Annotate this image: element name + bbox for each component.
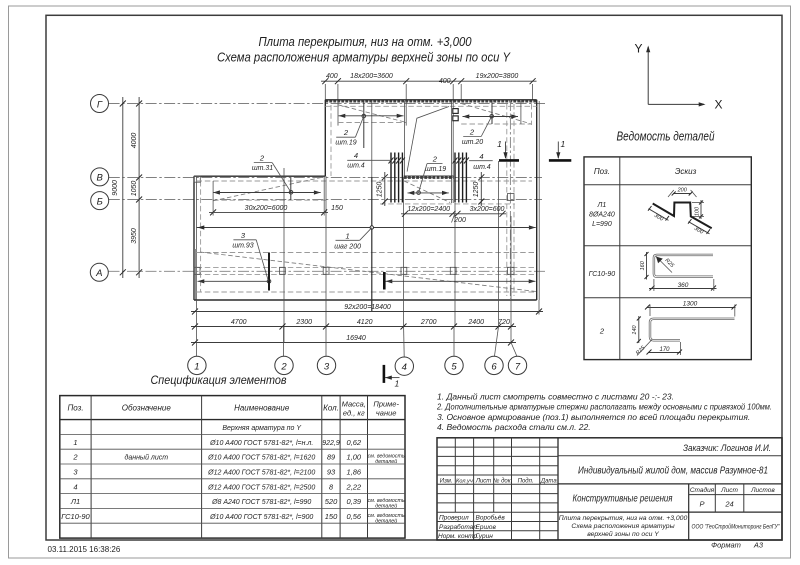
svg-text:Ø10 А400 ГОСТ 5781-82*, l=162: Ø10 А400 ГОСТ 5781-82*, l=1620 [207,455,315,462]
axis А line [109,270,546,272]
dim extension verticals to grid circles [197,300,540,357]
grid circle А [90,263,108,281]
svg-text:Схема расположения арматуры ве: Схема расположения арматуры верхней зоны… [217,50,511,65]
svg-text:Р: Р [699,500,704,509]
svg-text:деталей: деталей [375,517,397,524]
svg-text:шт.93: шт.93 [232,242,253,249]
30x200 zone diagonal [213,178,321,201]
svg-text:Наименование: Наименование [234,404,290,413]
svg-text:9000: 9000 [112,180,119,196]
title block Изм header row [440,477,558,484]
grid circle Г [91,95,109,113]
svg-text:Y: Y [634,42,642,56]
svg-text:4120: 4120 [357,319,373,326]
title block right part lines [558,456,782,540]
spec row Л1 [70,497,405,510]
svg-text:3x200=600: 3x200=600 [470,206,505,213]
span arrow 30x200 zone [213,190,321,194]
slab right edge [536,100,538,300]
svg-text:170: 170 [659,347,670,353]
spec row 3 [73,468,362,477]
span arrow left wing [339,114,404,118]
callout 2 шт.19 left wing [335,116,363,146]
svg-text:ГС10-90: ГС10-90 [589,271,616,278]
svg-text:12x200=2400: 12x200=2400 [407,206,450,213]
left wall inner [196,176,198,300]
bottom right span arrow [386,279,536,283]
svg-text:92x200=18400: 92x200=18400 [344,304,391,311]
svg-text:1,00: 1,00 [346,453,361,462]
title block sheet name 3 lines [559,515,688,538]
svg-text:Ø12 А400 ГОСТ 5781-82*, l=210: Ø12 А400 ГОСТ 5781-82*, l=2100 [207,470,315,477]
bottom dim 16940 [191,335,516,346]
svg-text:1: 1 [73,438,77,447]
callout 3 шт.93 [232,231,268,281]
svg-text:3. Основное армирование (поз.: 3. Основное армирование (поз.1) выполняе… [437,412,750,422]
callout 4 шт.4 [469,152,493,171]
svg-text:150: 150 [331,205,343,212]
column squares on axis А [194,267,200,274]
svg-text:Кол.: Кол. [323,404,339,413]
grid circle 4 [395,357,413,375]
svg-text:Подп.: Подп. [518,478,534,484]
grid circle 2 [275,356,293,374]
svg-text:Поз.: Поз. [594,167,610,176]
svg-text:160: 160 [640,260,646,270]
svg-text:Ершов: Ершов [476,524,497,531]
svg-text:ГС10-90: ГС10-90 [61,512,90,521]
Формат А3 footer [711,541,764,550]
left wall grey fill [194,249,196,300]
bottom zone long diagonal [200,252,536,292]
spec table frame [60,396,405,538]
svg-text:3950: 3950 [131,228,138,244]
svg-text:деталей: деталей [375,458,397,465]
rebar cluster left [389,153,405,203]
spec table header [67,400,399,418]
svg-text:1: 1 [497,139,502,149]
svg-text:2: 2 [432,155,438,164]
svg-text:Масса,: Масса, [342,400,366,409]
svg-text:Плита перекрытия, низ на отм.: Плита перекрытия, низ на отм. +3,000 [559,515,688,522]
svg-text:Кол.уч: Кол.уч [456,478,473,484]
svg-text:Гурин: Гурин [476,533,494,540]
шаг 200 long arrow [529,225,536,229]
svg-text:Норм. контр.: Норм. контр. [438,533,479,540]
svg-text:Проверил: Проверил [439,515,469,522]
gap leader polyline [407,107,449,172]
svg-text:Плита перекрытия, низ на отм.: Плита перекрытия, низ на отм. +3,000 [259,34,473,49]
dim 1250 right [473,172,484,206]
svg-text:2: 2 [280,361,287,372]
Ведомость деталей table frame [584,157,751,360]
svg-text:4. Ведомость расхода стали см: 4. Ведомость расхода стали см.л. 22. [437,422,591,432]
svg-text:922,9: 922,9 [322,440,340,447]
svg-text:Поз.: Поз. [67,404,83,413]
svg-text:1: 1 [561,139,566,149]
wing zone diagonal left [338,105,406,123]
svg-text:89: 89 [327,453,336,462]
svg-text:2. Дополнительные арматурные: 2. Дополнительные арматурные стержни рас… [436,402,772,412]
svg-text:4: 4 [354,151,358,160]
svg-text:140: 140 [632,324,638,334]
svg-text:720: 720 [498,319,510,326]
svg-text:Л1: Л1 [70,497,80,506]
12x200 zone diagonal [404,181,450,203]
spec row ГС10-90 [61,512,405,525]
В band thick rebar line [404,176,454,179]
left wall inner dashed [200,181,202,292]
svg-text:Ø8 А240 ГОСТ 5781-82*, l=990: Ø8 А240 ГОСТ 5781-82*, l=990 [211,499,311,506]
callout 2 шт.31 [252,154,293,195]
svg-text:5: 5 [451,361,457,372]
svg-text:Л1: Л1 [597,202,607,209]
svg-text:А: А [95,268,102,279]
callout 2 шт.20 right wing [462,116,492,146]
шт.93 bar [268,253,270,291]
vertical dim line 9000 [112,97,126,278]
svg-text:520: 520 [325,497,338,506]
left wall outer [193,176,195,300]
span arrow 12x200 zone [408,191,449,195]
gap square marker 2 [453,116,458,121]
svg-text:200: 200 [453,217,466,224]
rebar cluster right [453,153,469,203]
svg-text:2: 2 [343,128,349,137]
svg-text:ООО "ГеоСтройМониторинг БелГУ": ООО "ГеоСтройМониторинг БелГУ" [692,523,780,531]
svg-text:А3: А3 [753,541,764,550]
axis vertical grid 6' dash-dot [509,100,511,300]
grid circle 6 [485,356,503,374]
svg-text:шаг 200: шаг 200 [334,243,361,250]
svg-text:Стадия: Стадия [690,486,715,494]
title block stage cells [690,486,776,509]
svg-text:Изм.: Изм. [440,478,453,484]
svg-text:1: 1 [194,361,199,372]
svg-text:4000: 4000 [131,133,138,149]
bottom dim row 4700 2300 4120 2700 2400 720 [191,319,516,330]
svg-text:Воробьёв: Воробьёв [476,514,506,522]
svg-text:2: 2 [599,327,605,336]
svg-text:1050: 1050 [131,181,138,197]
svg-text:4: 4 [73,482,77,491]
vertical dim line 4000/1050/3950 [131,97,142,278]
svg-text:1,86: 1,86 [346,468,361,477]
slab outline top edge with rebar tick band [325,100,536,103]
sketch Л1 zigzag bar [648,188,712,237]
svg-text:150: 150 [325,512,338,521]
svg-text:Спецификация элементов: Спецификация элементов [151,375,287,387]
svg-text:1300: 1300 [683,300,698,307]
svg-text:16940: 16940 [346,335,366,342]
svg-text:2700: 2700 [420,319,437,326]
span arrow right wing [463,114,519,118]
svg-text:Заказчик: Логинов И.И.: Заказчик: Логинов И.И. [683,443,771,454]
svg-text:400: 400 [326,73,338,80]
svg-text:200: 200 [677,188,688,194]
svg-text:30x200=6000: 30x200=6000 [245,205,288,212]
spec row 4 [73,482,362,491]
grid circle 7 [508,356,526,374]
interior wall/grid verticals [283,168,285,343]
top dim line 400+3600 / 400+3800 [321,73,537,126]
spec row 2 [72,453,405,466]
svg-text:19x200=3800: 19x200=3800 [476,73,519,80]
svg-text:Лист: Лист [720,487,738,494]
interior dashed slab lines [325,105,536,107]
row Л1 labels [589,202,615,228]
svg-text:2,22: 2,22 [345,482,361,491]
svg-text:2: 2 [259,154,265,163]
axis Б line [109,199,542,201]
svg-text:4: 4 [479,152,483,161]
svg-text:шт.31: шт.31 [252,165,273,172]
svg-text:шт.4: шт.4 [347,162,365,169]
svg-text:7: 7 [515,361,521,372]
svg-text:Ø10 А400 ГОСТ 5781-82*, l=н.л: Ø10 А400 ГОСТ 5781-82*, l=н.л. [209,440,313,447]
callout 1 шаг 200 [334,228,372,251]
thick bar at grid4 bottom [383,272,386,290]
svg-text:0,56: 0,56 [346,512,361,521]
svg-text:Разработал: Разработал [439,523,477,531]
svg-text:1250: 1250 [377,182,384,198]
svg-text:В: В [97,173,104,184]
svg-text:4700: 4700 [231,319,247,326]
svg-text:1: 1 [346,231,350,240]
grid circle 3 [317,356,335,374]
svg-text:18x200=3600: 18x200=3600 [350,73,393,80]
svg-text:3: 3 [324,361,330,372]
svg-text:03.11.2015 16:38:26: 03.11.2015 16:38:26 [48,545,121,554]
svg-text:8ØА240: 8ØА240 [589,212,615,219]
svg-text:360: 360 [678,282,689,289]
dim 1250 left [377,172,388,206]
wing zone diagonal right [461,104,531,125]
svg-text:1250: 1250 [473,182,480,198]
axis В line [109,177,542,179]
title block signature rows [438,514,505,541]
svg-text:шт.4: шт.4 [473,164,491,171]
svg-text:0,39: 0,39 [346,497,361,506]
wing left edge wall [324,100,326,176]
svg-text:данный лист: данный лист [124,454,168,462]
svg-text:Эскиз: Эскиз [675,167,697,176]
svg-text:шт.19: шт.19 [335,140,356,147]
dashed vertical wing inner edge [330,105,332,176]
grid circle 1 [188,356,206,374]
svg-text:верхней зоны по оси Y: верхней зоны по оси Y [587,530,659,538]
axis Г line [109,103,545,105]
svg-text:Ø12 А400 ГОСТ 5781-82*, l=250: Ø12 А400 ГОСТ 5781-82*, l=2500 [207,484,315,491]
svg-text:ед., кг: ед., кг [343,409,365,418]
bottom left span arrow to wall [198,279,205,283]
svg-text:Г: Г [97,99,103,110]
svg-text:L=990: L=990 [592,221,612,228]
svg-text:93: 93 [327,468,336,477]
svg-text:2: 2 [72,453,78,462]
svg-text:Ведомость деталей: Ведомость деталей [617,130,715,144]
section mark 1 upper left [497,139,519,160]
sketch поз.2 bar [632,300,737,356]
svg-text:2400: 2400 [467,319,484,326]
corner column square at В [194,176,200,182]
svg-text:2: 2 [469,128,475,137]
svg-text:400: 400 [439,78,451,85]
sketch ГС10-90 hook bar [640,252,717,291]
XY coordinate symbol [634,42,722,112]
svg-text:Лист: Лист [475,478,491,484]
notes [436,392,772,433]
svg-text:шт.20: шт.20 [462,139,483,146]
grid circle В [91,168,109,186]
svg-text:Листов: Листов [750,487,775,494]
svg-text:Верхняя арматура по Y: Верхняя арматура по Y [222,425,302,432]
svg-text:0,62: 0,62 [346,438,361,447]
dashed vertical right wing zone edge [531,104,533,125]
svg-text:100: 100 [695,206,701,216]
svg-text:24: 24 [724,500,733,509]
dim 12x200=2400 / 200 / 3x200=600 [401,206,506,224]
svg-text:4: 4 [402,362,407,373]
section mark 1 upper right [549,139,571,160]
title block frame [437,438,782,540]
svg-text:Обозначение: Обозначение [122,404,172,413]
svg-text:№ док.: № док. [493,477,512,484]
svg-text:1. Данный лист смотреть совме: 1. Данный лист смотреть совместно с лист… [437,392,674,402]
svg-text:Б: Б [97,196,103,207]
dim 30x200=6000 [209,176,343,215]
section mark 1 lower [384,365,400,389]
svg-text:Индивидуальный жилой дом, масс: Индивидуальный жилой дом, массив Разумно… [578,466,768,477]
spec row 1 [73,438,362,447]
svg-text:Формат: Формат [711,541,741,550]
svg-text:Ø10 А400 ГОСТ 5781-82*, l=900: Ø10 А400 ГОСТ 5781-82*, l=900 [209,514,313,521]
svg-text:шт.19: шт.19 [425,166,446,173]
svg-text:чание: чание [376,409,397,418]
svg-text:6: 6 [491,361,497,372]
slab bottom edge [194,299,537,301]
svg-text:1: 1 [395,379,400,389]
dashed vertical pair grid 6' [506,104,508,296]
svg-text:Приме-: Приме- [373,400,399,409]
grid circle 5 [445,356,463,374]
svg-text:деталей: деталей [375,503,397,510]
wing zone bottom dashed right [461,123,531,125]
svg-text:Конструктивные решения: Конструктивные решения [573,494,674,505]
callout 4 шт.4 left [347,151,391,169]
grid circle Б [91,192,109,210]
callout 2 шт.19 middle [419,155,447,193]
svg-text:X: X [714,98,722,112]
svg-text:Схема расположения арматуры: Схема расположения арматуры [571,523,674,530]
шт.31 bar [290,178,292,201]
gap square marker 1 [453,109,458,114]
wing zone bottom dashed left [338,122,406,124]
column square grid6' at Б [508,194,515,201]
step edge along В [194,175,325,177]
bottom dim 92x200=18400 [191,304,543,315]
svg-text:Дата: Дата [540,478,557,484]
svg-text:2300: 2300 [295,319,312,326]
